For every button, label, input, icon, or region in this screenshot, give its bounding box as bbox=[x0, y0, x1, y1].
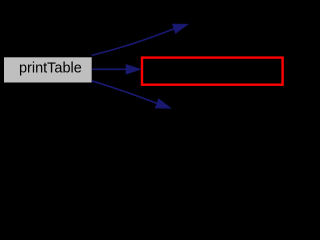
svg-text:printTable: printTable bbox=[19, 60, 82, 76]
node printTable bbox=[4, 57, 92, 82]
edge printTable -> red node bbox=[92, 65, 141, 75]
edge printTable -> bottom callee bbox=[92, 81, 171, 108]
node truncated (red) bbox=[142, 58, 283, 85]
edge printTable -> top callee bbox=[92, 24, 188, 55]
